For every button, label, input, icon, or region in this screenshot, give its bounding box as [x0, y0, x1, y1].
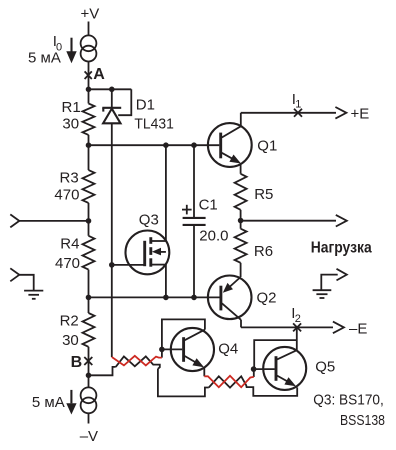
output arrow -E [333, 322, 344, 334]
break mark I2 [293, 323, 301, 331]
node B break mark [84, 357, 92, 365]
twisted link 2 red wire [204, 376, 254, 387]
junction dot node A [86, 87, 92, 93]
wire node B to current sink [88, 375, 90, 387]
wire Q3 source to lower rail [165, 265, 167, 298]
resistor R6 [235, 221, 247, 278]
wire input 2 to ground [19, 275, 33, 290]
junction dot Q3 gate tap [109, 262, 115, 268]
wire upper rail to Q1 base [89, 144, 220, 146]
svg-text:BSS138: BSS138 [340, 412, 385, 429]
svg-text:Q5: Q5 [315, 358, 335, 375]
wire D1 anode down to red link [111, 123, 113, 357]
svg-text:Q3: BS170,: Q3: BS170, [313, 391, 384, 408]
label Q3 device types [313, 391, 385, 429]
label I1 [292, 91, 302, 111]
output arrow to load [336, 215, 347, 227]
junction dot Q5 base [251, 366, 257, 372]
svg-text:5 мА: 5 мА [28, 49, 61, 66]
junction dot C1 bottom on lower rail [191, 295, 197, 301]
svg-text:D1: D1 [136, 97, 155, 114]
svg-text:Q2: Q2 [257, 290, 277, 307]
junction dot C1 top on upper rail [191, 142, 197, 148]
arrow I0 current direction [66, 38, 76, 64]
wire Q5 collector-base loop [254, 340, 297, 369]
svg-text:Q1: Q1 [257, 138, 277, 155]
svg-text:Q3: Q3 [139, 212, 159, 229]
twisted link 2 black wire [209, 376, 297, 396]
svg-text:R2: R2 [60, 313, 79, 330]
wire current sink to -V [88, 413, 90, 423]
svg-text:Q4: Q4 [218, 341, 238, 358]
current sink 5 mA (bottom) [81, 387, 97, 413]
wire lower rail to Q2 base [89, 296, 220, 298]
wire current source to node A [88, 62, 90, 90]
svg-text:R6: R6 [254, 243, 273, 260]
svg-text:470: 470 [54, 187, 79, 204]
transistor Q1 [208, 113, 252, 174]
C1 polarity plus sign [182, 205, 192, 215]
label I0 [53, 33, 62, 53]
svg-text:30: 30 [62, 332, 79, 349]
twisted link 1 red wire [112, 356, 162, 366]
wire +V to current source I0 [88, 22, 90, 36]
svg-text:R4: R4 [60, 235, 79, 252]
input arrow 1 [10, 214, 19, 227]
load ground with arrow [313, 269, 347, 298]
svg-text:B: B [71, 354, 83, 371]
svg-text:30: 30 [62, 116, 79, 133]
svg-text:Нагрузка: Нагрузка [311, 240, 372, 257]
svg-text:R1: R1 [62, 99, 81, 116]
svg-text:5 мА: 5 мА [32, 394, 65, 411]
wire input 1 to R3/R4 node [19, 220, 88, 222]
svg-text:C1: C1 [199, 197, 218, 214]
junction dot node B [86, 373, 92, 379]
junction dot output node [238, 218, 244, 224]
diode D1 (TL431) [102, 89, 121, 123]
current source I0 [81, 35, 97, 61]
D1 reference pin loop [118, 89, 131, 115]
junction dot Q3 source on lower rail [163, 295, 169, 301]
svg-text:20.0: 20.0 [199, 228, 228, 245]
wire Q3 drain to upper rail [165, 145, 167, 241]
svg-text:1: 1 [295, 99, 301, 111]
black wire loop around Q4 [158, 369, 209, 397]
wire Q2 collector to -E [241, 326, 333, 328]
resistor R3 [83, 145, 95, 221]
junction dot Q3 drain on upper rail [163, 142, 169, 148]
svg-text:2: 2 [295, 313, 301, 325]
svg-text:+V: +V [81, 6, 100, 23]
svg-text:TL431: TL431 [134, 115, 174, 132]
wire node A to D1 reference loop [89, 88, 132, 90]
junction dot R3/R4 input node [86, 218, 92, 224]
wire Q4 collector-base loop [162, 319, 205, 357]
ground (input 2) [24, 291, 43, 299]
wire Q3 gate to D1 anode line [112, 264, 145, 266]
wire node B to twisted link (black) [89, 367, 116, 375]
twisted link 1 black wire [116, 356, 160, 368]
svg-text:–E: –E [349, 321, 367, 338]
svg-text:+E: +E [351, 106, 370, 123]
resistor R2 [83, 297, 95, 375]
node A break mark [85, 71, 92, 79]
resistor R5 [235, 174, 247, 221]
junction dot R1 bottom rail [86, 142, 92, 148]
junction dot R4 bottom rail [86, 295, 92, 301]
transistor Q2 (PNP) [208, 276, 252, 328]
svg-text:R5: R5 [254, 186, 273, 203]
svg-text:R3: R3 [60, 170, 79, 187]
input arrow 2 [10, 268, 19, 281]
wire output node to load [241, 220, 336, 222]
wire Q5 collector to -E break point [296, 327, 298, 350]
capacitor C1 [183, 145, 206, 297]
resistor R4 [83, 221, 95, 298]
junction dot Q4 base [159, 347, 165, 353]
wire Q1 collector to +E [241, 112, 336, 114]
svg-text:A: A [93, 66, 105, 83]
transistor Q4 [162, 328, 214, 376]
svg-text:–V: –V [80, 428, 98, 445]
stub Q5 base to red link [253, 369, 255, 377]
arrow bottom current direction [66, 390, 76, 415]
break mark I1 [294, 109, 302, 117]
output arrow +E [335, 107, 346, 119]
transistor Q5 [254, 347, 307, 390]
resistor R1 [83, 89, 95, 145]
junction dot D1 cathode [109, 87, 115, 93]
mosfet Q3 [125, 231, 169, 275]
label I2 [291, 305, 301, 325]
svg-text:470: 470 [55, 255, 80, 272]
